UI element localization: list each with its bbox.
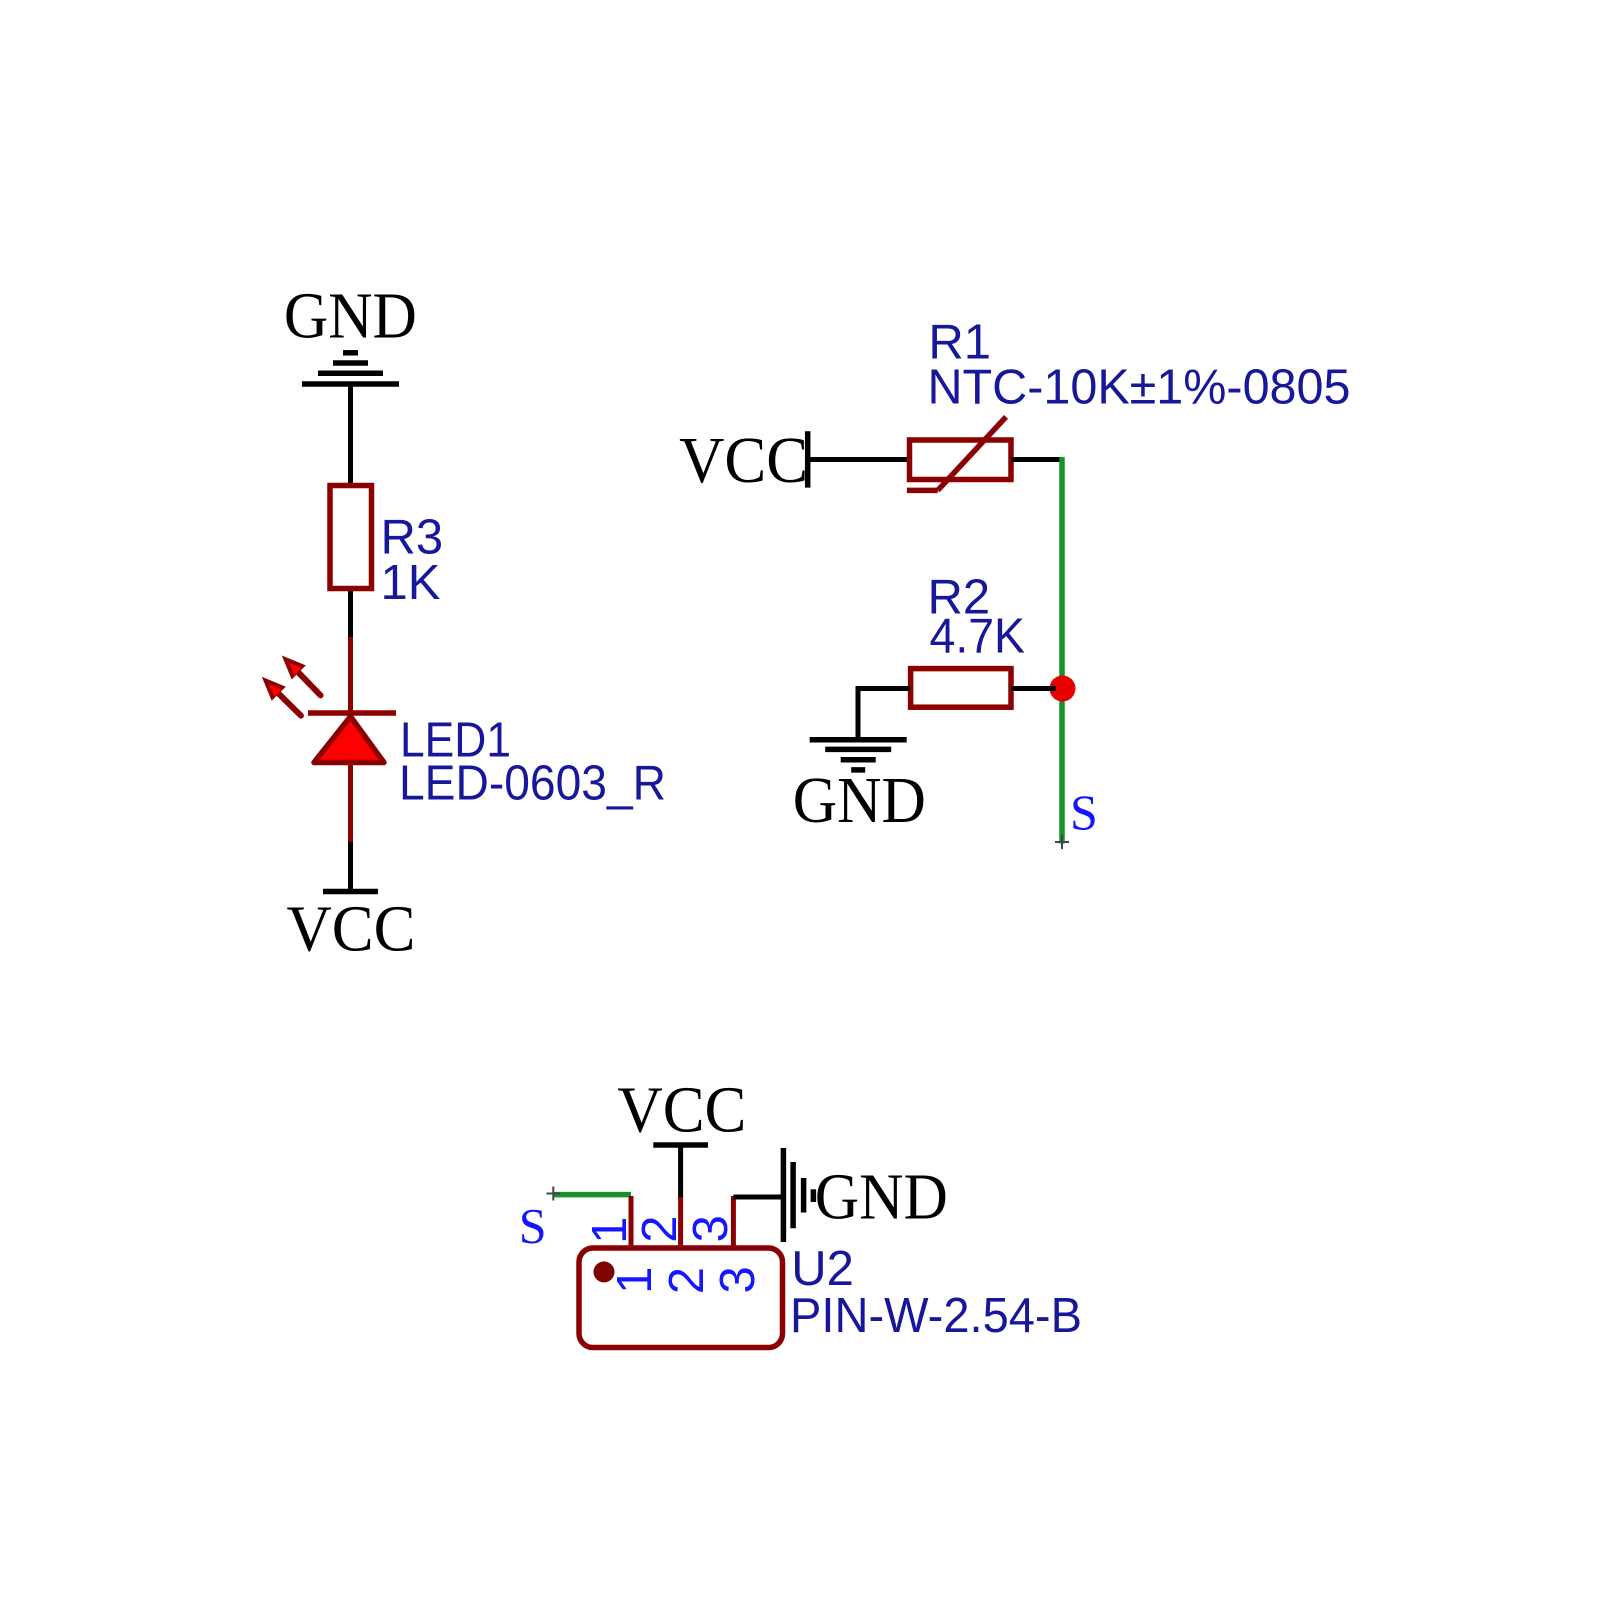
svg-text:U2: U2 [791, 1242, 854, 1296]
LED pin (anode lead) [348, 763, 353, 843]
wire [1011, 457, 1060, 462]
svg-text:4.7K: 4.7K [930, 610, 1026, 664]
LED cathode bar [308, 710, 396, 716]
svg-text:3: 3 [684, 1215, 738, 1242]
wire [348, 386, 353, 486]
wire [811, 457, 908, 462]
svg-text:GND: GND [284, 280, 417, 353]
LED pin (cathode lead) [348, 637, 353, 714]
pin 1 marker dot [594, 1261, 615, 1282]
svg-text:GND: GND [793, 764, 926, 837]
svg-text:GND: GND [815, 1161, 948, 1234]
wire [348, 591, 353, 638]
wire [1011, 686, 1056, 691]
svg-text:LED-0603_R: LED-0603_R [399, 756, 666, 810]
power port VCC (bottom of LED branch) [323, 889, 378, 895]
svg-text:VCC: VCC [287, 893, 416, 966]
pin 2 lead [678, 1197, 683, 1246]
svg-text:S: S [519, 1198, 547, 1254]
wire S (green vertical) [1059, 457, 1065, 844]
svg-text:1: 1 [583, 1217, 637, 1244]
svg-text:NTC-10K±1%-0805: NTC-10K±1%-0805 [928, 361, 1351, 415]
svg-text:PIN-W-2.54-B: PIN-W-2.54-B [790, 1289, 1082, 1343]
wire [733, 1195, 783, 1200]
thermistor R1 [907, 417, 1011, 491]
connector body [579, 1248, 783, 1348]
ground symbol GND (top left, flipped, wire below) [302, 353, 399, 384]
wire S (green, to pin 1) [553, 1192, 631, 1198]
wire [678, 1145, 683, 1198]
pin-end marker (S wire end) [547, 1187, 561, 1201]
svg-text:VCC: VCC [679, 424, 808, 497]
resistor R2 [911, 669, 1011, 708]
ground symbol GND (right) [810, 740, 907, 770]
connector U2 [579, 1196, 783, 1348]
wire [348, 842, 353, 891]
ground symbol GND (bottom, rotated) [783, 1148, 813, 1242]
svg-text:2: 2 [660, 1267, 714, 1294]
svg-text:1: 1 [608, 1267, 662, 1294]
svg-text:2: 2 [633, 1216, 687, 1243]
LED emission arrow 1 [262, 677, 301, 716]
svg-text:VCC: VCC [617, 1074, 746, 1147]
svg-text:1K: 1K [381, 556, 441, 610]
resistor R3 [330, 486, 372, 589]
junction node [1050, 676, 1076, 702]
LED emission arrow 2 [282, 656, 321, 696]
LED triangle [314, 717, 384, 763]
pin 1 lead [629, 1196, 634, 1246]
LED LED1 [262, 637, 396, 842]
svg-text:3: 3 [711, 1266, 765, 1293]
pin 3 lead [731, 1196, 736, 1246]
svg-text:S: S [1070, 784, 1098, 840]
wire [858, 689, 910, 739]
pin-end marker (S wire end) [1055, 835, 1069, 849]
